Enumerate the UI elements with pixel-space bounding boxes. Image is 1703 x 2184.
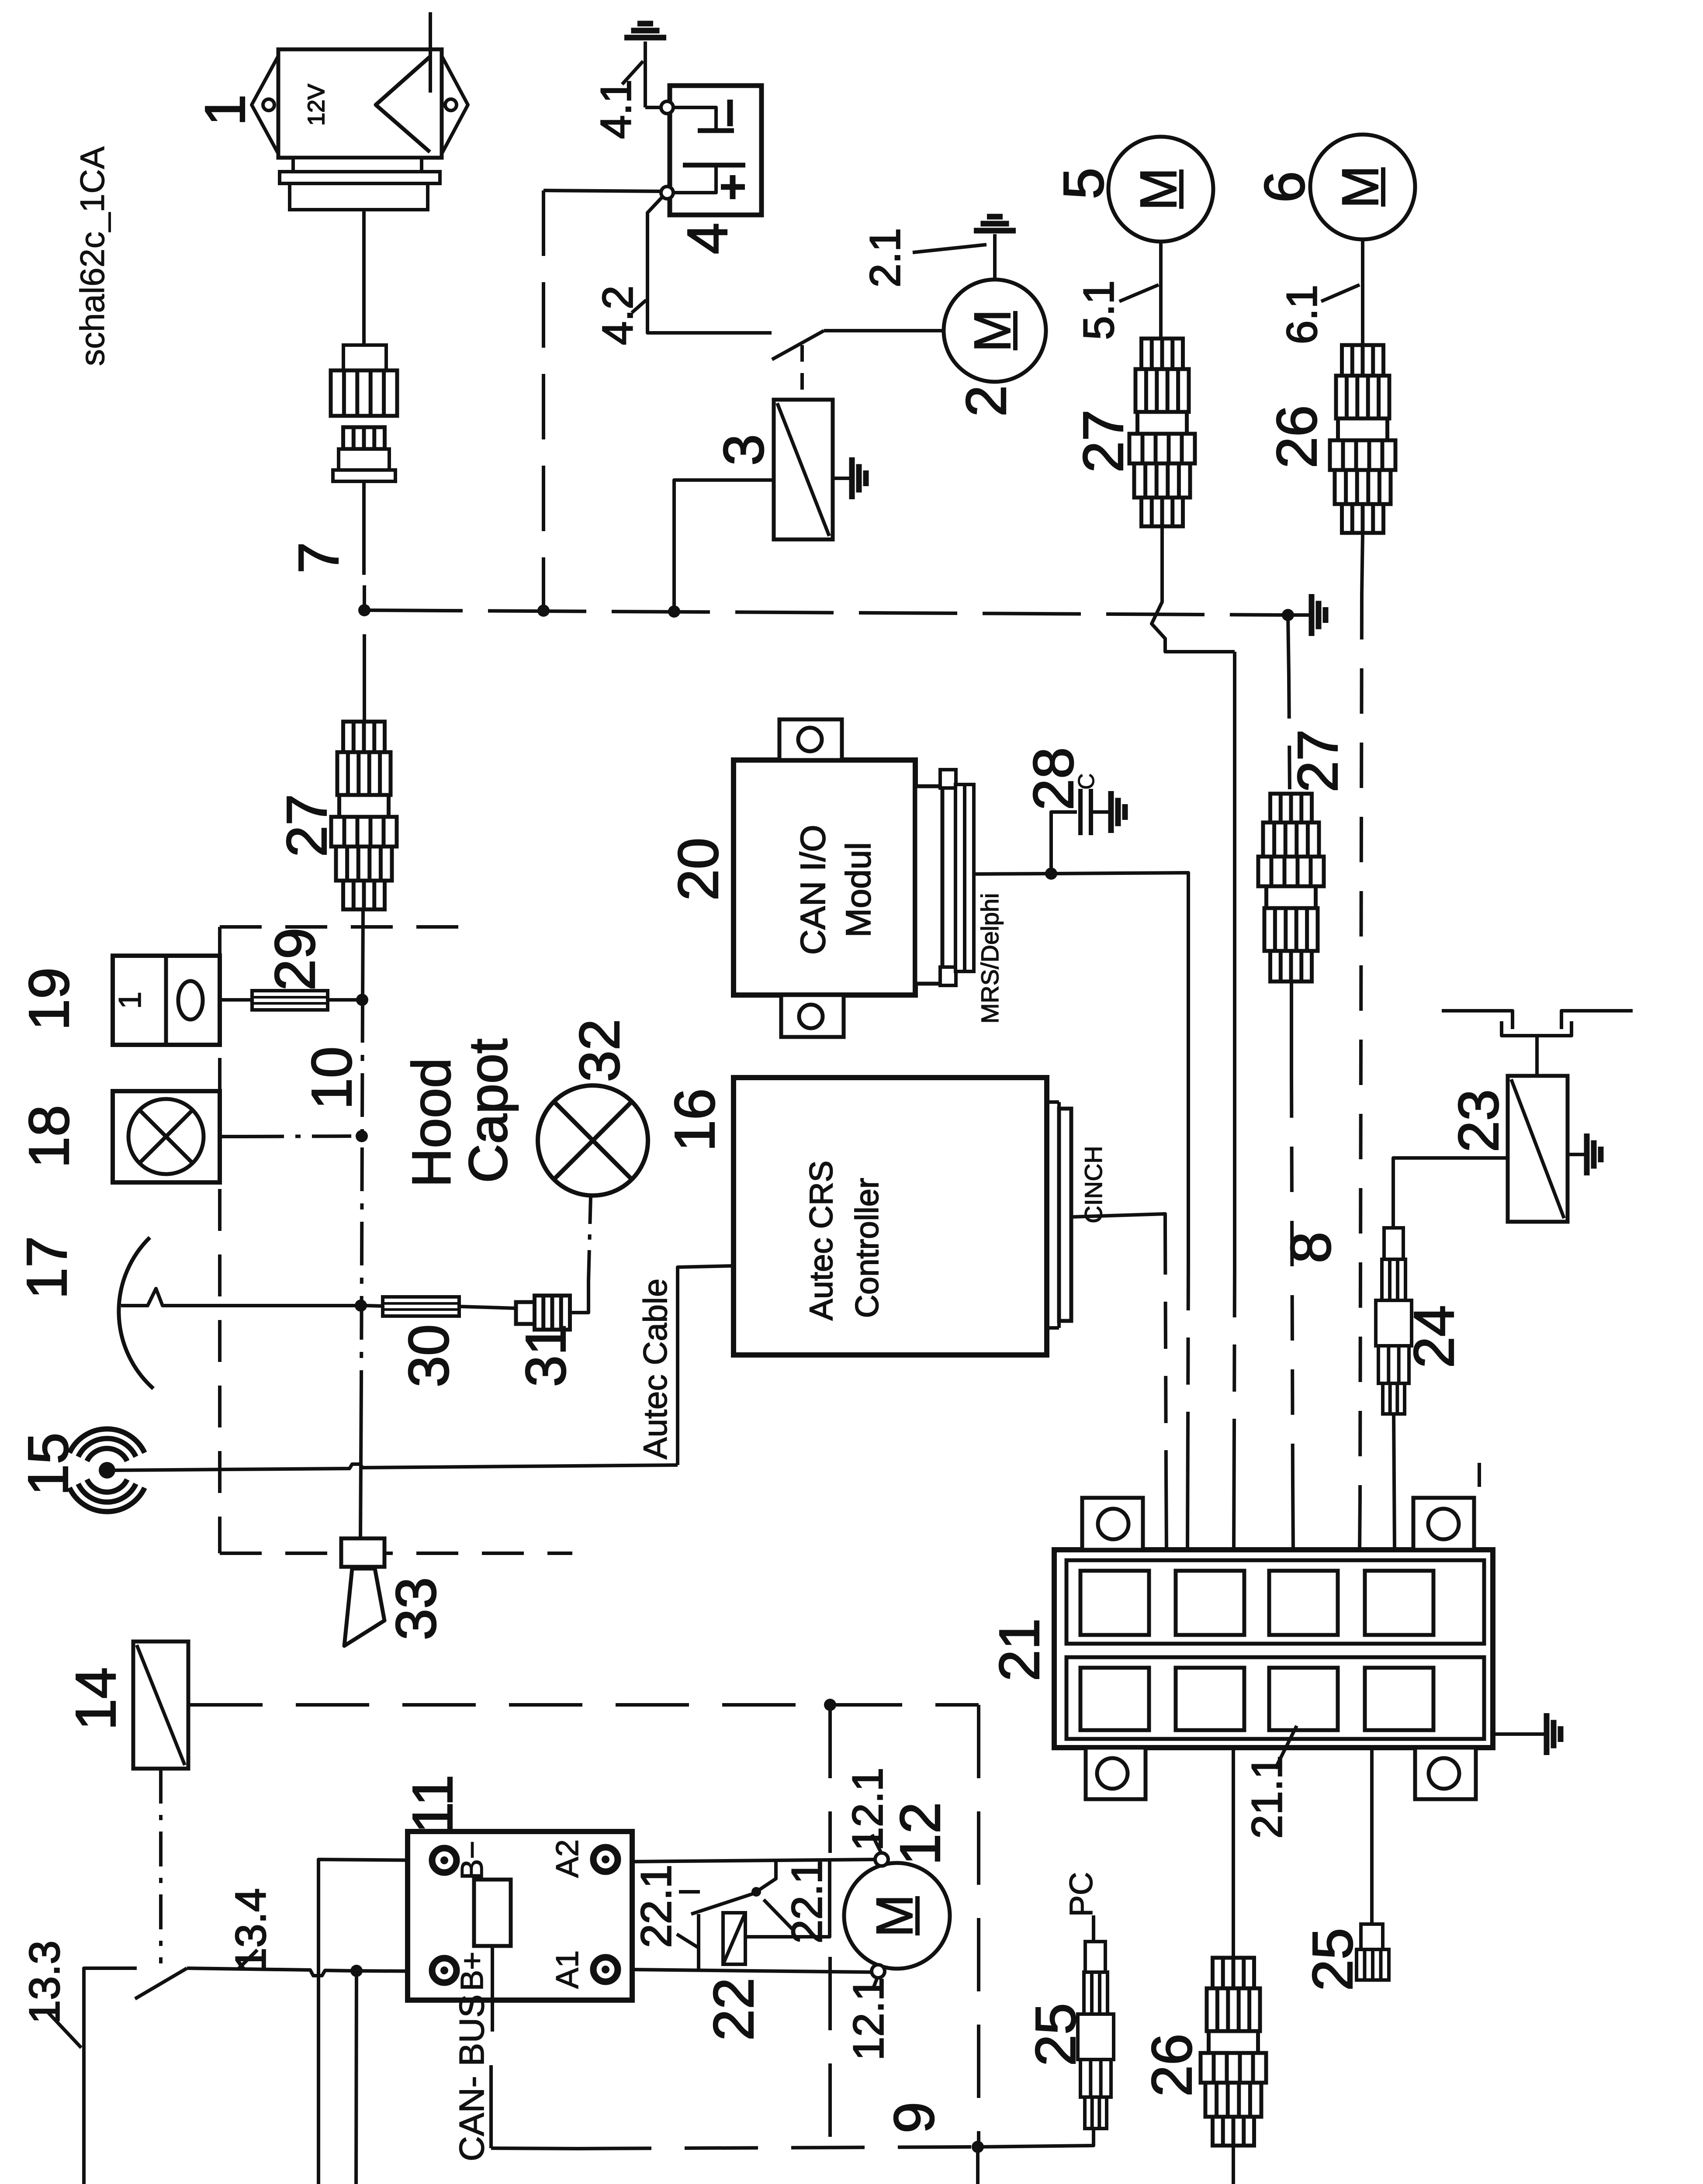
controller 16 CINCH connector bar bbox=[1059, 1109, 1071, 1321]
battery 4 minus sign bbox=[727, 100, 733, 126]
hood boundary dashed top edge bbox=[220, 925, 481, 929]
wire block 21 to connector 25 (right) bbox=[1370, 1748, 1374, 1924]
connector 26 (bottom harness) bbox=[1213, 1958, 1254, 1988]
wire block 21 to connector 26 (bottom) bbox=[1232, 1748, 1235, 1958]
machine boundary dashed vertical left bbox=[828, 1705, 832, 1853]
machine boundary dashed vertical right bbox=[977, 1705, 980, 2147]
wire fuse 30 to connector 31 bbox=[459, 1306, 515, 1308]
svg-text:1: 1 bbox=[113, 992, 148, 1009]
wire node to B+ terminal bbox=[357, 1971, 430, 1971]
CAN I/O module connector bar bbox=[955, 784, 974, 971]
wire antenna 17 with kink to bus 10 bbox=[121, 1289, 357, 1306]
wire antenna 15 to Autec cable corner (with hop) bbox=[114, 1464, 678, 1470]
wire bus node to fuse 30 bbox=[366, 1306, 383, 1306]
wire harness branch down to block 21 (solid then dashed) bbox=[1233, 652, 1236, 1270]
battery 4 body bbox=[670, 86, 762, 215]
svg-text:12.1: 12.1 bbox=[844, 1977, 892, 2061]
relay 23 body bbox=[1508, 1076, 1568, 1222]
wire motor 6 to connector 26 bbox=[1361, 239, 1364, 344]
svg-text:6.1: 6.1 bbox=[1277, 285, 1326, 344]
receiver 1 right ear hole bbox=[445, 99, 457, 111]
wire 4.2 from battery plus bbox=[647, 197, 772, 333]
leader line 6.1 bbox=[1321, 285, 1360, 301]
ground symbol at capacitor 28 bbox=[1108, 791, 1114, 833]
CAN node box 11 (upper) bbox=[408, 1832, 632, 2000]
switch actuator dashed link to relay 3 bbox=[800, 345, 804, 398]
svg-text:10: 10 bbox=[300, 1047, 363, 1110]
switch 19 body bbox=[113, 956, 220, 1045]
wire connector 27 to node 7 bbox=[362, 481, 366, 575]
block 21 top row square 4 bbox=[1365, 1571, 1433, 1635]
receiver 1 left ear hole bbox=[263, 99, 274, 111]
connector 27 (hood harness) bbox=[343, 722, 385, 752]
svg-text:4.1: 4.1 bbox=[592, 79, 640, 139]
svg-text:5: 5 bbox=[1052, 168, 1115, 199]
relay coil 22 body bbox=[723, 1913, 745, 1964]
indicator lamp 18 body bbox=[113, 1091, 220, 1182]
svg-text:4: 4 bbox=[675, 223, 739, 254]
CAN I/O module top mounting tab bbox=[779, 719, 842, 760]
receiver 1 connector step 2 bbox=[280, 172, 440, 183]
lamp 18 circle cross symbol bbox=[128, 1099, 204, 1174]
relay 3 ground stem bbox=[833, 477, 852, 480]
receiver 1 connector step 1 bbox=[293, 158, 422, 172]
svg-text:CINCH: CINCH bbox=[1080, 1146, 1107, 1223]
svg-text:M: M bbox=[866, 1894, 924, 1937]
terminal B- of box 11 bbox=[432, 1848, 457, 1873]
leader line 13.4 upper bbox=[239, 1950, 257, 1969]
svg-text:29: 29 bbox=[263, 928, 327, 991]
horn 33 bell bbox=[344, 1569, 384, 1646]
distribution block 21 outer body bbox=[1054, 1550, 1493, 1748]
receiver unit 1 body bbox=[278, 49, 442, 158]
switch 22 moving contact dot bbox=[751, 1887, 761, 1897]
receiver 1 left mounting ear bbox=[252, 56, 278, 154]
svg-text:11: 11 bbox=[401, 1775, 464, 1834]
leader line 5.1 bbox=[1119, 285, 1159, 301]
ground symbol at relay 3 bbox=[849, 457, 855, 499]
block 21 top row square 3 bbox=[1269, 1571, 1338, 1635]
switch 22 contact arm bbox=[691, 1893, 756, 1914]
svg-text:27: 27 bbox=[1286, 729, 1350, 793]
switch 22 link to A2 bbox=[756, 1861, 776, 1892]
hood boundary dashed bottom edge bbox=[220, 1552, 572, 1555]
svg-text:CAN I/O: CAN I/O bbox=[793, 825, 832, 955]
receiver 1 antenna mast bbox=[429, 12, 432, 93]
block 21 bottom row square 3 bbox=[1269, 1668, 1338, 1730]
block 21 inner frame bottom row bbox=[1066, 1657, 1484, 1739]
terminal A2 of box 11 bbox=[593, 1847, 618, 1872]
termination resistor in box 11 bbox=[474, 1880, 511, 1946]
antenna 15 radiation symbol bbox=[99, 1462, 115, 1479]
connector 31 socket bbox=[535, 1296, 570, 1330]
svg-text:6: 6 bbox=[1253, 171, 1316, 203]
svg-text:schal62c_1CA: schal62c_1CA bbox=[73, 146, 111, 366]
wire motor 5 to connector 27 bbox=[1159, 242, 1163, 338]
connector 31 plug bbox=[516, 1302, 535, 1324]
svg-text:B−: B− bbox=[455, 1841, 490, 1880]
motor 12 circle bbox=[844, 1863, 950, 1969]
svg-text:25: 25 bbox=[1301, 1928, 1364, 1991]
CAN I/O module connector key top bbox=[940, 770, 956, 788]
svg-text:B+: B+ bbox=[455, 1952, 490, 1991]
block 21 mounting tab bottom-left bbox=[1086, 1748, 1146, 1799]
svg-text:27: 27 bbox=[1071, 410, 1135, 473]
wire bus 10 (dash-dot) bbox=[363, 910, 363, 999]
wire resistor to CAN-BUS (upper) bbox=[491, 1946, 494, 2032]
connector 27 (receiver feed) socket housing bbox=[343, 427, 385, 449]
terminal A1 of box 11 bbox=[593, 1957, 618, 1982]
wire connector 24 to block 21 bbox=[1394, 1414, 1395, 1548]
wire CAN-BUS dashed 9 line bbox=[491, 2148, 578, 2149]
svg-text:26: 26 bbox=[1265, 405, 1329, 469]
stub dash above block 21 right bbox=[1478, 1463, 1481, 1487]
battery 4 ground 4.1 symbol bbox=[624, 35, 666, 41]
wire capacitor branch bbox=[1051, 812, 1077, 874]
connector 27 (receiver feed) pin housing bbox=[343, 345, 386, 370]
relay 23 diagonal bbox=[1511, 1079, 1564, 1218]
block 21 inner frame top row bbox=[1066, 1560, 1484, 1644]
wire node to PC connector bbox=[978, 2130, 1094, 2147]
svg-text:M: M bbox=[1332, 166, 1389, 208]
svg-text:12: 12 bbox=[888, 1802, 952, 1866]
svg-text:23: 23 bbox=[1447, 1089, 1510, 1153]
wire node 7 down to connector 27 bbox=[363, 634, 366, 722]
wire connector 27 down with crossover jog bbox=[1152, 527, 1235, 652]
svg-text:27: 27 bbox=[275, 794, 339, 857]
connector 25 (PC) bbox=[1085, 1942, 1105, 1972]
wire Autec cable riser bbox=[678, 1266, 734, 1465]
wire lamp 18 to bus 10 (dash-dot) bbox=[220, 1135, 245, 1138]
svg-text:MRS/Delphi: MRS/Delphi bbox=[976, 893, 1004, 1024]
svg-text:22.1: 22.1 bbox=[782, 1860, 831, 1944]
svg-text:30: 30 bbox=[397, 1324, 460, 1388]
node junction dot antenna wire / bus 10 bbox=[355, 1299, 367, 1312]
CAN I/O module connector key bottom bbox=[940, 967, 956, 985]
svg-text:19: 19 bbox=[17, 968, 81, 1031]
wire connector 26 down then dashed to block 21 bbox=[1362, 533, 1363, 594]
svg-text:12.1: 12.1 bbox=[843, 1768, 891, 1851]
svg-text:Controller: Controller bbox=[849, 1178, 885, 1318]
block 21 top row square 1 bbox=[1080, 1571, 1149, 1635]
leader line 22.1 upper-left bbox=[677, 1934, 698, 1947]
machine boundary dashed top edge bbox=[189, 1703, 979, 1707]
wire motor 2 to ground 2.1 bbox=[993, 234, 997, 280]
leader line 2.1 bbox=[913, 245, 986, 252]
connector 27 (mid harness) bbox=[1270, 794, 1312, 822]
disconnect bracket left bbox=[1442, 1011, 1513, 1029]
wire receiver to connector 27 bbox=[362, 210, 366, 345]
connector 25 socket (right) bbox=[1357, 1949, 1389, 1980]
wire ground node down (dashed line to connector 27) bbox=[1288, 615, 1289, 675]
block 21 ground stem bbox=[1493, 1732, 1547, 1736]
ground symbol at main bus right end bbox=[1288, 613, 1312, 617]
disconnect T-bar bbox=[1502, 1021, 1571, 1036]
connector 24 bbox=[1384, 1228, 1403, 1259]
svg-text:18: 18 bbox=[17, 1105, 81, 1168]
svg-text:5.1: 5.1 bbox=[1074, 280, 1122, 340]
svg-text:C: C bbox=[1074, 773, 1099, 790]
CAN I/O module bottom mounting tab bbox=[781, 995, 844, 1037]
wire to harness corner bbox=[1051, 873, 1188, 1263]
ground symbol at relay 23 bbox=[1584, 1133, 1590, 1175]
svg-text:CAN- BUS: CAN- BUS bbox=[452, 1994, 491, 2161]
relay coil 22 diagonal bbox=[723, 1913, 745, 1964]
wire battery plus to bus (long dash) bbox=[543, 190, 661, 191]
block 21 bottom row square 4 bbox=[1365, 1668, 1433, 1730]
wire dashed 8 below connector to block 21 bbox=[1290, 982, 1293, 1072]
wire A2 to motor 12 (upper) bbox=[632, 1859, 875, 1862]
leader line 12.1 bbox=[872, 1835, 881, 1852]
receiver 1 right mounting ear bbox=[442, 56, 468, 154]
CAN I/O module connector protrusion bbox=[915, 786, 942, 984]
leader line 4.1 bbox=[622, 61, 643, 84]
node junction dot at capacitor branch bbox=[1045, 867, 1057, 880]
wire 13.4 to box 11 B+ (with hop at CAN line) bbox=[187, 1968, 355, 1976]
svg-text:21.1: 21.1 bbox=[1243, 1755, 1291, 1839]
relay 14 body bbox=[133, 1641, 188, 1769]
lamp 32 circle cross symbol bbox=[538, 1085, 648, 1196]
switch 13.4 contact arm bbox=[135, 1968, 187, 1999]
block 21 bottom row square 2 bbox=[1176, 1668, 1244, 1730]
battery 4 internal minus plate bbox=[673, 107, 716, 131]
battery 4 plus sign bbox=[730, 175, 736, 199]
svg-text:22.1: 22.1 bbox=[632, 1865, 680, 1948]
svg-text:12V: 12V bbox=[303, 84, 329, 126]
block 21 top row square 2 bbox=[1176, 1571, 1244, 1635]
wire connector 26 down to lower bus bbox=[1232, 2146, 1235, 2184]
motor 12 bottom terminal bbox=[872, 1965, 885, 1978]
svg-text:25: 25 bbox=[1024, 2003, 1087, 2067]
svg-text:A1: A1 bbox=[550, 1950, 585, 1989]
relay 14 diagonal bbox=[137, 1645, 185, 1765]
antenna 17 arc bbox=[119, 1237, 153, 1389]
node junction dot fuse 29 / bus 10 bbox=[356, 994, 368, 1006]
fuse 30 body bbox=[383, 1297, 459, 1316]
svg-text:8: 8 bbox=[1279, 1232, 1343, 1263]
wire fuse 29 to bus node bbox=[328, 998, 357, 1002]
svg-text:A2: A2 bbox=[550, 1839, 585, 1878]
svg-text:Capot: Capot bbox=[458, 1039, 519, 1183]
wire CINCH output bbox=[1071, 1214, 1165, 1227]
svg-text:M: M bbox=[964, 309, 1021, 352]
wire A2 branch to coil 22 bbox=[745, 1861, 830, 1937]
svg-text:13.3: 13.3 bbox=[20, 1941, 68, 2024]
disconnect bracket right bbox=[1561, 1011, 1633, 1029]
wire dashed down to block 21 bbox=[1188, 1263, 1188, 1420]
hood boundary dashed left edge bbox=[218, 927, 222, 1553]
wire 13.4 line B (node down to lower box B+) bbox=[355, 1971, 417, 2184]
motor 12 top terminal bbox=[875, 1853, 888, 1866]
leader line 22.1 upper-right bbox=[764, 1900, 792, 1929]
wire connector 31 to lamp 32 bbox=[570, 1281, 588, 1313]
svg-text:26: 26 bbox=[1140, 2034, 1204, 2097]
leader line 13.3 bbox=[47, 2011, 81, 2048]
wire battery minus to ground 4.1 bbox=[644, 41, 647, 107]
svg-text:2: 2 bbox=[954, 385, 1018, 417]
node junction dot on bus (from receiver) bbox=[358, 604, 370, 616]
dashed link between bus 9 and lower bus bbox=[976, 2147, 980, 2184]
block 21 mounting tab top-left bbox=[1082, 1498, 1143, 1550]
svg-text:9: 9 bbox=[882, 2102, 946, 2133]
motor 6 circle bbox=[1310, 135, 1415, 239]
relay 3 body bbox=[774, 400, 833, 539]
receiver 1 connector step 3 bbox=[290, 183, 428, 210]
block 21 mounting tab bottom-right bbox=[1415, 1748, 1476, 1799]
node junction dot (relay 3 branch) bbox=[668, 605, 680, 618]
switch contact arm (feed to motor 2) bbox=[772, 331, 824, 359]
svg-text:2.1: 2.1 bbox=[861, 228, 909, 287]
wire T-bar to relay 23 bbox=[1535, 1036, 1539, 1076]
terminal B+ of box 11 bbox=[432, 1958, 457, 1983]
ground symbol at block 21 bbox=[1544, 1713, 1550, 1755]
svg-text:Autec CRS: Autec CRS bbox=[803, 1161, 839, 1320]
svg-text:Hood: Hood bbox=[402, 1058, 462, 1187]
wire dashed CINCH harness to block 21 bbox=[1165, 1227, 1166, 1476]
fuse 29 body bbox=[252, 991, 328, 1010]
svg-text:33: 33 bbox=[384, 1577, 448, 1641]
node junction dot 13.4 / B+ branch bbox=[350, 1965, 363, 1977]
switch 22 fixed contact mark bbox=[679, 1890, 700, 1894]
relay 23 ground stem bbox=[1568, 1153, 1587, 1156]
Autec CRS controller 16 body bbox=[734, 1078, 1047, 1355]
svg-text:1: 1 bbox=[193, 94, 257, 126]
svg-text:32: 32 bbox=[568, 1019, 631, 1082]
switch 22 pivot riser from A1 wire bbox=[697, 1914, 700, 1970]
block 21 bottom row square 1 bbox=[1080, 1668, 1149, 1730]
wire dashed main bus bbox=[364, 610, 1288, 615]
wire CAN line B- (upper box to lower node) bbox=[318, 1859, 429, 2184]
receiver 1 antenna chevron bbox=[376, 57, 430, 152]
svg-text:22: 22 bbox=[702, 1978, 765, 2041]
switch 19 position 0 marking bbox=[178, 981, 203, 1019]
svg-text:14: 14 bbox=[64, 1667, 128, 1731]
controller 16 connector step top bbox=[1047, 1100, 1059, 1104]
connector 26 under motor 6 bbox=[1342, 345, 1384, 376]
leader line 4.2 bbox=[632, 300, 646, 313]
wire CAN I/O module output bbox=[974, 874, 1050, 874]
block 21 mounting tab top-right bbox=[1413, 1498, 1474, 1550]
relay 14 actuator dash-dot to switch 13.4 bbox=[159, 1769, 163, 1963]
motor 5 circle bbox=[1108, 137, 1213, 242]
wire PC label to connector bbox=[1092, 1915, 1095, 1942]
svg-text:15: 15 bbox=[16, 1433, 80, 1496]
battery 4 plus terminal bbox=[661, 187, 673, 199]
svg-text:20: 20 bbox=[666, 838, 730, 901]
battery 4 internal plus plate bbox=[683, 163, 745, 168]
svg-text:Autec Cable: Autec Cable bbox=[637, 1279, 674, 1459]
wire relay 3 to bus bbox=[674, 480, 774, 610]
svg-text:Modul: Modul bbox=[839, 842, 878, 937]
svg-text:PC: PC bbox=[1063, 1872, 1099, 1917]
wire switch 19 to fuse 29 bbox=[220, 998, 252, 1002]
node junction dot lamp 18 / bus 10 bbox=[356, 1130, 368, 1142]
wire A1 to motor 12 (upper) bbox=[632, 1970, 874, 1972]
node junction dot (ground point) bbox=[1282, 609, 1294, 621]
svg-text:24: 24 bbox=[1402, 1305, 1466, 1368]
horn 33 base bbox=[341, 1538, 384, 1567]
connector 27 under motor 5 bbox=[1142, 339, 1183, 369]
svg-text:4.2: 4.2 bbox=[593, 286, 641, 345]
svg-text:3: 3 bbox=[712, 434, 775, 466]
relay 3 diagonal bbox=[777, 403, 829, 536]
leader line 21.1 bbox=[1275, 1726, 1297, 1769]
node junction dot 9 / PC branch bbox=[972, 2141, 984, 2153]
wire switch to motor 2 bbox=[824, 329, 944, 332]
svg-text:17: 17 bbox=[15, 1236, 79, 1299]
node junction dot (battery feed) bbox=[537, 605, 550, 617]
node dot on dashed boundary bbox=[824, 1699, 836, 1711]
motor 2 circle bbox=[944, 280, 1046, 382]
wire 13.3 corner to generator plus bbox=[84, 1968, 137, 2184]
svg-text:16: 16 bbox=[663, 1089, 727, 1152]
wire relay 23 to connector 24 bbox=[1393, 1158, 1508, 1228]
svg-text:31: 31 bbox=[514, 1324, 578, 1387]
battery 4 minus terminal bbox=[661, 101, 673, 114]
CAN I/O module 20 body bbox=[734, 760, 915, 995]
svg-text:21: 21 bbox=[987, 1618, 1051, 1682]
ground 2.1 symbol bbox=[974, 228, 1016, 234]
capacitor 28 plates bbox=[1078, 789, 1083, 835]
wire capacitor to ground bbox=[1091, 810, 1111, 814]
leader line 12.1 bbox=[872, 1978, 877, 1990]
connector 25 plug (right) bbox=[1361, 1924, 1383, 1949]
svg-text:M: M bbox=[1130, 168, 1187, 211]
svg-text:7: 7 bbox=[287, 542, 350, 574]
